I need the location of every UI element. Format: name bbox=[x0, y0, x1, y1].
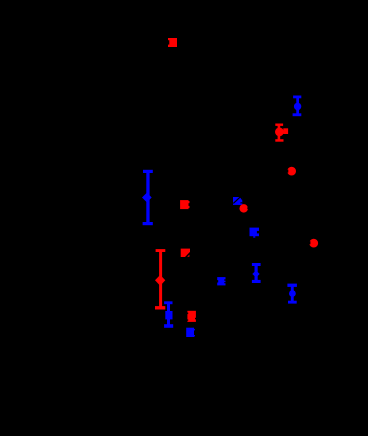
error bar E15: blue circle with vertical error bar at (292.3,293.5) bbox=[287, 284, 297, 304]
data point P9: red circle (243.7,208.4) bbox=[239, 204, 248, 213]
data point P18: blue square (190.1,332.3) bbox=[186, 328, 195, 337]
error bar E3: red circle with vertical error bar at (279.3,131.8) bbox=[275, 124, 288, 142]
data point P7: red square (184.3,204.5) bbox=[180, 200, 189, 209]
data point P4: red circle (291.5,171) bbox=[287, 167, 296, 176]
data point P5: red circle (313.6,243) bbox=[309, 239, 318, 248]
data point P10: blue square (254.2,231.9) bbox=[250, 228, 260, 238]
error bar E2: blue point with vertical error bar at (297.5,106) bbox=[293, 96, 302, 117]
data point P12: red square with black diagonal slash (185.4,252.8) bbox=[181, 249, 191, 258]
data point P14: blue square with notches (221.3,281.2) bbox=[217, 277, 226, 285]
data point P8: blue square with black diagonal slash (237.5,201) bbox=[233, 196, 242, 205]
error bar E13: blue diamond with short vertical error bar at (256,273.5) bbox=[252, 263, 261, 283]
data point P17: red tall square with notches (191.6,316.3) bbox=[187, 311, 196, 322]
error bar E11: red diamond with tall vertical error bar at (160.4,280) bbox=[155, 249, 165, 309]
error bar E16: blue square with vertical error bar at (168.8,315) bbox=[164, 301, 173, 328]
error bar E6: blue diamond with tall vertical error bar at (147,197.5) bbox=[142, 170, 153, 225]
data point P1: red square (172.5,42.4) bbox=[168, 38, 177, 47]
